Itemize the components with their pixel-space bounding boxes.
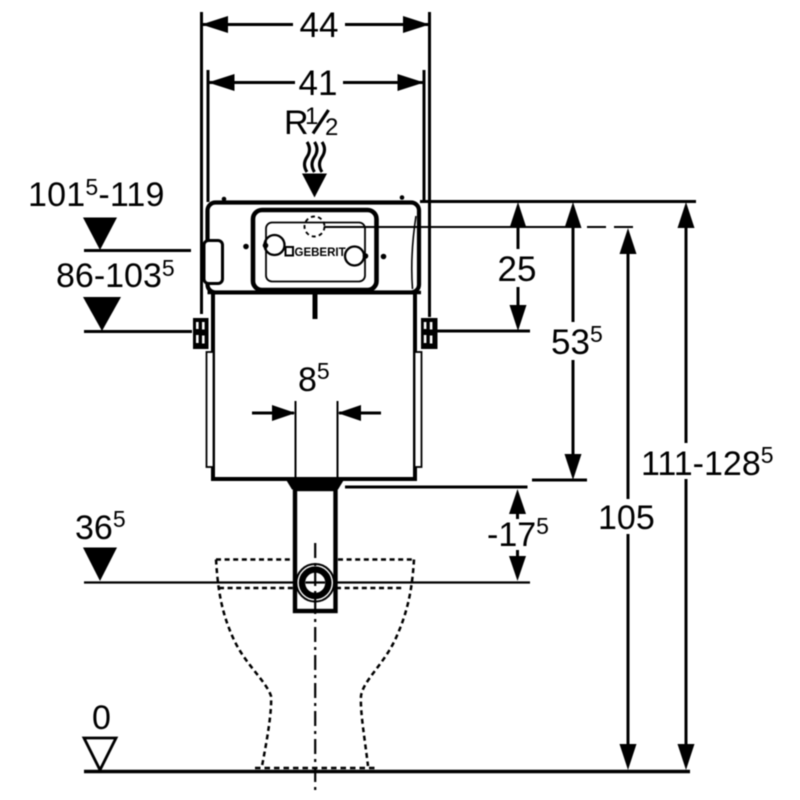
cistern main body <box>213 293 415 480</box>
dimension 41 extension line left <box>207 70 210 202</box>
svg-text:44: 44 <box>300 6 339 45</box>
right screw circle <box>345 247 364 266</box>
label R 1/2 <box>284 103 338 142</box>
reference line 25 bottom right <box>438 330 531 333</box>
flush pipe stub <box>313 294 318 319</box>
level triangle 36.5 <box>83 548 117 582</box>
reference line 101.5-119 left <box>84 249 191 252</box>
level triangle 101.5-119 <box>83 218 117 251</box>
dot right of panel <box>381 254 387 260</box>
wc pan dashed mid line <box>219 587 404 590</box>
level triangle 86-103.5 <box>83 297 121 331</box>
access panel inner frame <box>266 223 365 282</box>
dimension 111-128.5 line <box>678 202 695 770</box>
left tab on top box <box>204 241 223 284</box>
wc pan dashed base <box>255 767 375 770</box>
svg-text:41: 41 <box>299 64 338 103</box>
top reference line <box>420 200 696 203</box>
dimension 8.5 extension right <box>337 401 339 489</box>
wc pan right profile <box>361 560 414 767</box>
svg-text:111-1285: 111-1285 <box>641 442 774 483</box>
dimension 41 extension line right <box>423 70 426 202</box>
connection circle black ring <box>302 570 328 596</box>
dot left of panel <box>243 244 249 250</box>
left screw dot <box>263 243 269 249</box>
dimension 41 line <box>208 74 424 91</box>
svg-text:105: 105 <box>598 499 655 537</box>
zero level open triangle <box>84 738 116 770</box>
right screw dot <box>363 253 369 259</box>
flush bend black connector <box>287 481 344 490</box>
supply connection level line <box>84 581 530 583</box>
reference line -17.5 top <box>345 486 528 489</box>
wc pan dashed top line <box>216 558 414 561</box>
connection circle outer ring <box>296 564 334 602</box>
right side rail <box>415 352 422 467</box>
dimension 25 line <box>510 202 527 331</box>
step line under top box <box>208 291 422 295</box>
access panel outer frame <box>253 210 377 290</box>
left side rail <box>207 352 214 467</box>
dimension 44 extension line right <box>428 12 431 317</box>
wc pan left profile <box>216 560 271 767</box>
reference line 53.5 bottom <box>532 479 587 482</box>
dashed supply circle on panel <box>305 217 325 237</box>
water supply squiggle <box>305 142 325 172</box>
inner curve near right edge of top box <box>412 216 416 289</box>
right wall bracket <box>421 318 438 349</box>
svg-text:0: 0 <box>92 699 111 737</box>
left wall bracket <box>193 318 209 349</box>
dimension 105 line <box>620 228 637 770</box>
clip dot right on top box <box>400 195 405 200</box>
dimension 44 extension line left <box>200 12 203 314</box>
dimension 8.5 extension left <box>295 401 297 489</box>
svg-text:2: 2 <box>325 114 338 141</box>
reference line 86-103.5 left <box>84 330 192 333</box>
dimension 8.5 arrows <box>252 405 381 421</box>
centerline chord in connection circle <box>306 581 326 583</box>
svg-text:GEBERIT: GEBERIT <box>295 247 346 259</box>
dimension -17.5 arrows <box>509 489 526 581</box>
fraction slash of R 1/2 <box>313 110 329 134</box>
cistern top box <box>208 203 420 293</box>
left screw circle <box>265 235 285 255</box>
supply level line to 105 dim <box>324 226 640 228</box>
svg-text:25: 25 <box>498 250 537 289</box>
svg-text:86-1035: 86-1035 <box>56 255 175 295</box>
vertical centerline <box>314 543 316 790</box>
floor line <box>84 770 690 773</box>
dimension 44 line <box>202 16 430 33</box>
flush down pipe <box>295 489 336 611</box>
geberit logo square <box>286 247 294 256</box>
water supply arrow <box>302 174 327 198</box>
clip dot left on top box <box>222 197 227 202</box>
dimension 53.5 line <box>565 202 582 480</box>
